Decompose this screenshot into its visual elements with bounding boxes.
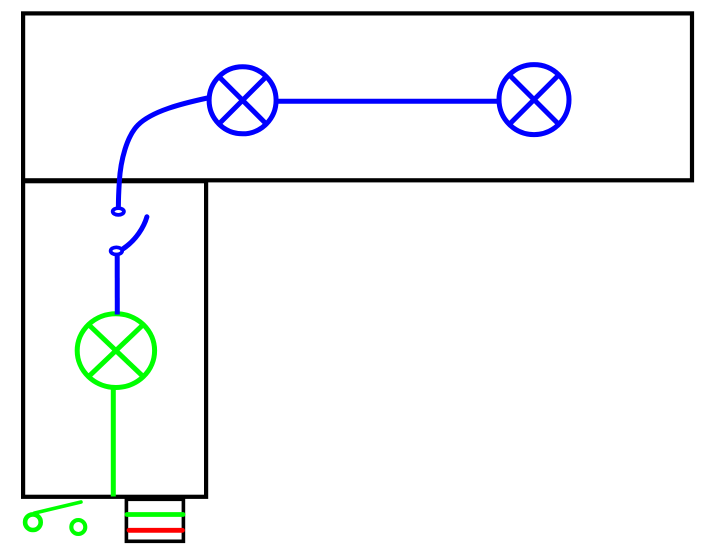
wall switch circle right	[71, 520, 85, 534]
lamp L2	[499, 65, 569, 135]
wall switch circle left	[25, 514, 41, 530]
room outline lower	[23, 181, 206, 497]
supply terminal box	[126, 499, 183, 541]
wire L1 to L2	[277, 99, 497, 104]
wall switch lever	[34, 502, 81, 513]
green supply conductor	[127, 512, 183, 517]
wire L1 to switch	[118, 98, 207, 206]
green wire lamp to supply	[111, 388, 116, 497]
lamp L1	[209, 67, 276, 134]
wire switch to lamp L3	[115, 255, 120, 314]
red supply conductor	[129, 528, 183, 533]
room outline upper	[23, 13, 692, 180]
switch bottom contact	[111, 247, 123, 254]
lamp L3	[77, 314, 154, 388]
switch top contact	[113, 208, 124, 215]
switch blade	[124, 217, 147, 249]
